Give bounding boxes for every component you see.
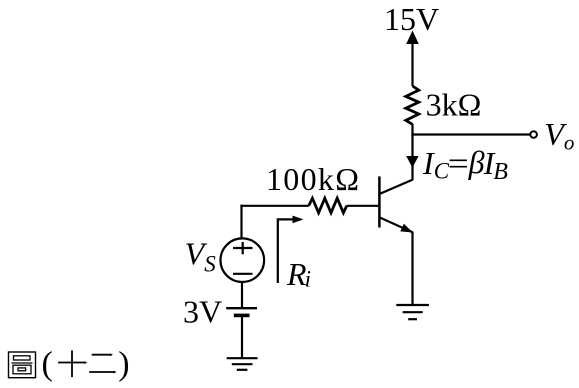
- svg-text:β: β: [468, 144, 485, 180]
- caption parenthesis close: [118, 346, 129, 383]
- transistor Q1 base bar: [378, 176, 381, 227]
- ground at emitter: [396, 305, 429, 319]
- caption character ten (十): [58, 350, 87, 377]
- caption character two (二): [89, 354, 116, 374]
- transistor Q1 emitter lead: [379, 217, 413, 232]
- svg-text:3kΩ: 3kΩ: [426, 87, 482, 123]
- label 3kOhm: [426, 87, 482, 123]
- label Ri: [286, 256, 311, 292]
- label VS: [185, 235, 217, 276]
- wire base right segment: [347, 205, 379, 207]
- svg-text:15V: 15V: [384, 1, 439, 37]
- caption figure character TU (圖): [9, 352, 36, 378]
- svg-text:o: o: [564, 131, 575, 155]
- svg-text:(: (: [42, 346, 53, 383]
- current arrow IC: [406, 156, 418, 168]
- transistor Q1 collector lead: [379, 180, 413, 195]
- label 100kOhm: [266, 161, 359, 197]
- svg-text:S: S: [204, 251, 216, 276]
- terminal Vo: [530, 131, 537, 138]
- svg-text:=: =: [448, 145, 469, 181]
- wire source top: [240, 205, 242, 239]
- wire collector vertical: [411, 124, 413, 180]
- label 15V supply: [384, 1, 439, 37]
- battery 3V long plate: [226, 307, 257, 309]
- svg-text:100kΩ: 100kΩ: [266, 161, 359, 197]
- wire emitter vertical: [411, 232, 413, 306]
- source minus sign: [233, 273, 253, 275]
- resistor RB 100k: [309, 198, 347, 213]
- label Vo: [544, 116, 574, 155]
- ground at source: [227, 358, 258, 370]
- input resistance arrow Ri: [278, 216, 304, 283]
- caption parenthesis open: [42, 346, 53, 383]
- wire battery to ground: [241, 315, 243, 358]
- source VS circle: [221, 238, 265, 282]
- power arrow to 15V: [406, 31, 419, 87]
- svg-text:i: i: [305, 266, 311, 291]
- source plus sign: [233, 242, 253, 254]
- wire source to battery: [241, 282, 243, 308]
- svg-text:B: B: [493, 159, 508, 185]
- svg-text:): ): [118, 346, 129, 383]
- label 3V: [183, 293, 222, 329]
- battery 3V short plate: [234, 314, 250, 318]
- svg-text:3V: 3V: [183, 293, 222, 329]
- resistor RC 3k: [406, 86, 419, 124]
- wire output node horizontal: [411, 133, 529, 135]
- wire base left segment: [240, 205, 308, 207]
- label IC = beta IB: [422, 144, 508, 185]
